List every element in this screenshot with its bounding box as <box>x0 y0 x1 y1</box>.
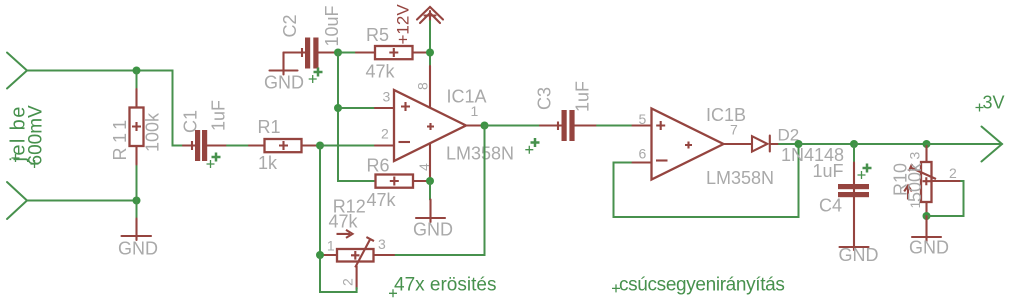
svg-text:1uF: 1uF <box>209 100 229 131</box>
svg-text:1uF: 1uF <box>573 81 593 112</box>
svg-text:47x erösités: 47x erösités <box>394 275 496 296</box>
ground GND2 at C2 <box>270 53 298 75</box>
node junction R12 pin1 <box>316 251 324 259</box>
capacitor C4 polarized <box>838 163 869 251</box>
origin cross 600mV <box>31 160 39 168</box>
supply +12V symbol <box>417 7 443 23</box>
diode D2 <box>752 136 779 152</box>
svg-text:GND: GND <box>118 239 158 259</box>
svg-text:1k: 1k <box>258 153 278 173</box>
svg-text:GND: GND <box>909 238 949 258</box>
svg-text:1uF: 1uF <box>813 161 844 181</box>
wire top input to C1 corner <box>27 71 183 146</box>
node junction feedback <box>795 140 803 148</box>
svg-text:GND: GND <box>839 245 879 265</box>
svg-text:C2: C2 <box>280 14 300 37</box>
ground GND5 below R10 <box>912 236 941 238</box>
node junction IC1A output <box>481 122 489 130</box>
resistor R1 <box>249 139 317 152</box>
origin cross 47x <box>389 289 397 297</box>
wire IC1B pin7 out <box>724 143 753 145</box>
op-amp IC1B <box>633 109 724 180</box>
svg-text:3: 3 <box>383 89 391 105</box>
ground GND4 below C4 <box>840 246 869 248</box>
svg-text:47k: 47k <box>329 212 359 232</box>
wire bias to IC1A pin3 <box>338 107 375 109</box>
wire pin4 junction to GND <box>429 181 431 200</box>
svg-text:100k: 100k <box>143 112 163 152</box>
wire +12V rail down <box>429 21 431 66</box>
capacitor C1 polarized <box>183 130 227 161</box>
plus marks C1 <box>212 153 221 162</box>
node junction R5 right at rail <box>426 49 434 57</box>
trimmer R10 <box>904 146 961 216</box>
svg-text:R5: R5 <box>366 25 389 45</box>
origin cross jel be <box>12 154 20 162</box>
svg-text:GND: GND <box>264 73 304 93</box>
resistor R11 <box>130 89 144 165</box>
resistor R5 <box>338 46 427 59</box>
svg-text:600mV: 600mV <box>26 105 47 166</box>
node junction R10 bottom <box>923 212 931 220</box>
svg-text:LM358N: LM358N <box>706 168 774 188</box>
wire C4 top <box>853 144 855 163</box>
svg-text:IC1B: IC1B <box>706 105 746 125</box>
plus marks C4 <box>863 164 872 173</box>
wire feedback down from output <box>394 126 485 256</box>
svg-text:2: 2 <box>339 278 355 286</box>
wire inverting node down to R12 <box>319 146 321 256</box>
node junction bias to pin3 <box>334 104 342 112</box>
wire R11 top stub <box>136 71 138 90</box>
wire C3 to IC1B pin5 <box>597 125 633 127</box>
node junction R6 right pin4 <box>426 177 434 185</box>
svg-text:6: 6 <box>639 146 647 162</box>
svg-text:GND: GND <box>413 220 453 240</box>
ground GND1 below input <box>122 219 152 241</box>
svg-text:5: 5 <box>639 111 647 127</box>
svg-text:csúcsegyenirányítás: csúcsegyenirányítás <box>619 275 785 296</box>
op-amp IC1A <box>375 90 466 161</box>
wire output to C3 <box>485 125 541 127</box>
node junction R1 right <box>316 142 324 150</box>
svg-text:+12V: +12V <box>394 4 413 45</box>
plus marks C2 <box>314 68 323 77</box>
wire C4 junction to R10 junction <box>854 143 927 145</box>
svg-text:10uF: 10uF <box>322 5 342 46</box>
svg-text:47k: 47k <box>367 190 397 210</box>
origin cross csúcs <box>612 284 620 292</box>
wire bias vertical <box>338 53 374 182</box>
svg-text:C3: C3 <box>535 87 555 110</box>
svg-text:3: 3 <box>378 236 386 252</box>
wire junction to GND symbol <box>136 201 138 219</box>
node junction R10 top <box>923 140 931 148</box>
connector bottom input pinhead <box>7 182 27 219</box>
svg-text:R11: R11 <box>110 115 130 160</box>
svg-text:8: 8 <box>415 82 431 90</box>
svg-text:1: 1 <box>327 237 335 253</box>
node junction bias at C2 right <box>334 49 342 57</box>
wire C1 to R1 <box>227 145 249 147</box>
wire R11 bottom to junction <box>136 165 138 201</box>
wire IC1A pin4 stub <box>429 140 431 181</box>
wire IC1A pin8 stub <box>429 66 431 112</box>
wire junction to IC1A pin2 <box>320 145 375 147</box>
svg-text:3V: 3V <box>983 93 1005 113</box>
node junction C4 top <box>850 140 858 148</box>
resistor R6 <box>376 175 428 188</box>
svg-text:IC1A: IC1A <box>447 87 487 107</box>
svg-text:C4: C4 <box>819 196 842 216</box>
connector top input pinhead <box>7 53 27 89</box>
node junction at GND below R11 <box>133 197 141 205</box>
wire junction to C4 <box>799 143 855 145</box>
svg-text:4: 4 <box>416 163 432 171</box>
svg-text:3: 3 <box>907 152 923 160</box>
wire IC1A pin1 out <box>466 124 485 126</box>
capacitor C3 polarized <box>540 110 597 141</box>
connector output pinhead <box>982 127 1003 162</box>
node junction at R11 top <box>133 67 141 75</box>
svg-text:500k: 500k <box>905 162 925 202</box>
wire bottom input to GND junction <box>27 200 137 202</box>
trimmer R12 <box>322 230 394 289</box>
plus marks C3 <box>531 138 540 147</box>
svg-text:R1: R1 <box>258 117 281 137</box>
capacitor C2 polarized <box>284 38 335 69</box>
svg-text:47k: 47k <box>366 62 396 82</box>
wire R12 wiper loop <box>320 255 357 292</box>
svg-text:2: 2 <box>949 165 957 181</box>
wire R10 wiper loop <box>927 181 964 216</box>
ground GND3 below IC1A <box>416 200 445 223</box>
origin cross 3V <box>976 104 984 112</box>
svg-text:R6: R6 <box>367 156 390 176</box>
svg-text:LM358N: LM358N <box>446 144 514 164</box>
svg-text:C1: C1 <box>181 110 201 133</box>
wire IC1B pin6 feedback <box>614 144 799 217</box>
wire D2 to junction <box>779 143 799 145</box>
svg-text:2: 2 <box>381 126 389 142</box>
wire R10 bottom to GND <box>925 216 927 241</box>
wire output to 3V connector <box>927 143 1003 145</box>
